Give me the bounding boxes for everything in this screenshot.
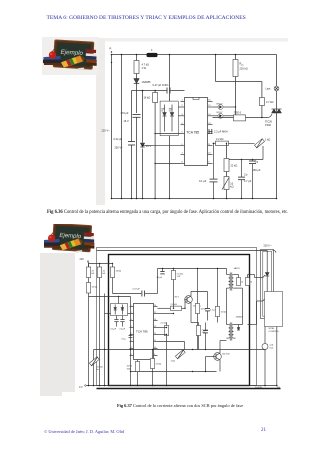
svg-text:30 V: 30 V	[175, 297, 180, 299]
caption figure 2	[40, 403, 320, 408]
wire Q2 nets	[205, 341, 227, 373]
apple	[48, 232, 55, 241]
transformer TR2	[227, 317, 244, 341]
svg-text:4.7 µF: 4.7 µF	[244, 179, 252, 183]
svg-text:1 kΩ: 1 kΩ	[171, 361, 176, 363]
wire input header	[89, 263, 114, 264]
svg-text:BY147: BY147	[217, 103, 224, 105]
wire rail C	[130, 297, 132, 387]
svg-text:15 kΩ: 15 kΩ	[221, 312, 227, 314]
node R input terminal	[110, 47, 113, 64]
clipart blackboard 1	[42, 37, 99, 80]
svg-text:Cφ: Cφ	[255, 160, 259, 164]
svg-text:12: 12	[154, 333, 156, 335]
resistor 4.7k load	[259, 82, 273, 119]
resistor 22k	[224, 143, 237, 172]
svg-text:8: 8	[131, 354, 132, 356]
diode BY147 b	[213, 112, 236, 118]
op-amp U2 TCA785	[130, 304, 158, 360]
wire phase ramp line	[213, 142, 255, 144]
wire bottom return	[86, 385, 276, 387]
capacitor Cb	[120, 316, 126, 331]
svg-text:16 kΩ: 16 kΩ	[116, 271, 122, 273]
footer	[44, 429, 124, 434]
label bottom designator	[255, 386, 281, 389]
capacitor 0.47uF	[153, 83, 171, 94]
svg-text:9: 9	[154, 354, 155, 356]
box ramp diodes	[160, 101, 178, 136]
wire bottom return bus	[112, 198, 277, 200]
wire rail to pin6	[142, 145, 181, 146]
box module label	[265, 292, 283, 334]
svg-text:16: 16	[154, 305, 156, 307]
svg-text:470 µF: 470 µF	[121, 111, 129, 115]
svg-text:150 µF: 150 µF	[253, 168, 261, 172]
lamp Last	[266, 86, 279, 91]
frame inner thick	[109, 255, 250, 386]
wire box to IC pins	[178, 107, 180, 116]
wire Q1 collector net	[158, 292, 208, 323]
svg-text:R: R	[110, 47, 112, 51]
thyristor SCR2	[263, 296, 269, 319]
wire box feed top	[169, 54, 171, 101]
svg-text:kΩ: kΩ	[103, 273, 106, 275]
wire Q1 base rail	[184, 300, 185, 310]
diode BAY61 a	[161, 105, 166, 132]
svg-text:1: 1	[131, 305, 132, 307]
svg-text:BD 135: BD 135	[223, 354, 231, 356]
wire rail A	[93, 350, 95, 387]
capacitor Cc	[203, 323, 208, 341]
crayon pencil	[61, 56, 85, 68]
svg-text:P100: P100	[265, 123, 272, 127]
resistor R lower	[86, 278, 97, 387]
wire top AC bus	[112, 54, 277, 56]
svg-text:15: 15	[154, 312, 156, 314]
wire mid feed bus	[158, 268, 227, 269]
potentiometer 4.7k lin	[89, 357, 103, 371]
svg-text:250 V~: 250 V~	[115, 146, 124, 150]
potentiometer 100k	[171, 350, 186, 363]
svg-text:0 V: 0 V	[79, 386, 83, 389]
svg-text:TSE 6: TSE 6	[234, 111, 242, 115]
svg-text:4.7 kΩ: 4.7 kΩ	[142, 63, 150, 67]
svg-text:0.47 µF ±10%: 0.47 µF ±10%	[153, 83, 170, 87]
wire left AC rail	[111, 54, 113, 200]
resistor Rsync 220k	[233, 54, 248, 116]
zener diode 1N4685	[134, 74, 151, 114]
wire ramp bus	[94, 349, 266, 350]
svg-text:220 V~: 220 V~	[102, 129, 111, 133]
resistor 10k under IC	[127, 360, 140, 387]
wire right rail	[276, 55, 278, 200]
clipart blackboard 2	[44, 224, 95, 260]
svg-text:22 kΩ: 22 kΩ	[156, 364, 162, 366]
wire rail x31	[131, 91, 133, 200]
svg-text:PG: PG	[277, 387, 280, 389]
wire box feed bottom	[169, 136, 171, 200]
wire gate1	[236, 275, 263, 278]
resistor 2.2k	[216, 137, 229, 146]
diode BY147 a	[213, 103, 237, 109]
svg-text:1 W: 1 W	[142, 66, 147, 70]
chalk	[76, 250, 82, 252]
resistor Re 1.4k	[196, 323, 208, 350]
op-amp U1 TCA785	[181, 98, 213, 166]
capacitor 0.22uF 250V	[114, 137, 136, 150]
resistor Rd 1k	[171, 269, 183, 297]
wire TR1 return	[227, 288, 243, 324]
books left stack	[43, 56, 62, 65]
capacitor 0.47uF	[113, 269, 158, 297]
blackboard	[52, 222, 92, 251]
resistor 5R b	[246, 275, 253, 286]
svg-text:220 kΩ: 220 kΩ	[240, 67, 248, 71]
capacitor C 4.7uF	[238, 159, 252, 200]
svg-text:TCA785: TCA785	[255, 386, 264, 389]
triac TIC26	[265, 109, 282, 127]
resistor R 47k	[86, 264, 94, 278]
svg-text:30 µF: 30 µF	[157, 277, 163, 279]
svg-text:1 kΩ: 1 kΩ	[265, 138, 270, 142]
svg-text:13: 13	[154, 326, 156, 328]
clipart backdrop	[42, 37, 99, 75]
transformer TR1	[227, 267, 241, 291]
diode Db	[121, 305, 124, 315]
svg-text:2.2 kΩ: 2.2 kΩ	[161, 323, 168, 325]
svg-text:220 V ~: 220 V ~	[264, 245, 273, 248]
svg-text:kΩ: kΩ	[92, 273, 95, 275]
transistor Q1	[185, 292, 202, 308]
resistor 2.2k horizontal	[167, 304, 186, 311]
resistor 22k	[150, 349, 161, 387]
capacitor 2.2uF MKH	[208, 129, 227, 134]
frame outer	[97, 248, 257, 386]
svg-text:3: 3	[131, 319, 132, 321]
capacitor C 470uF 16V	[121, 111, 141, 199]
box SCR module outer	[261, 250, 274, 319]
resistor 5R a	[237, 275, 244, 286]
resistor R1 4.7k 1W	[134, 54, 149, 74]
svg-text:10 kΩ: 10 kΩ	[127, 366, 133, 368]
wire lower bus	[130, 371, 217, 372]
svg-text:Cσ: Cσ	[244, 173, 248, 177]
motor M	[262, 344, 274, 387]
svg-text:1N4685: 1N4685	[142, 80, 152, 84]
resistor R 16k	[110, 264, 121, 294]
potentiometer 1k	[255, 138, 271, 160]
books right stack	[84, 232, 95, 248]
svg-text:0.1 µF: 0.1 µF	[199, 179, 207, 183]
svg-text:7: 7	[131, 347, 132, 349]
wire module drop	[264, 327, 266, 344]
resistor 15k vert	[215, 269, 226, 323]
capacitor Ca	[111, 316, 119, 331]
svg-text:und.: und.	[270, 345, 275, 347]
scan margin band	[40, 253, 62, 396]
diode D right	[237, 325, 240, 331]
svg-text:TCA 785: TCA 785	[186, 131, 199, 135]
capacitor C 150uF	[249, 160, 261, 200]
wire gate2	[236, 301, 263, 325]
svg-text:CONTROL: CONTROL	[269, 331, 280, 333]
svg-text:0.47 µF: 0.47 µF	[133, 289, 141, 291]
svg-text:1A125: 1A125	[234, 267, 241, 270]
chalk	[78, 68, 84, 70]
transistor Q2	[214, 349, 231, 365]
svg-text:BY147: BY147	[217, 112, 224, 114]
wire pin connects	[89, 296, 185, 350]
svg-text:sync: sync	[241, 65, 244, 67]
box sync diodes	[111, 304, 128, 316]
svg-text:kΩ: kΩ	[230, 185, 233, 189]
wire rail to pin8	[154, 163, 180, 164]
potentiometer 10k	[222, 172, 234, 200]
thyristor SCR1	[263, 253, 269, 293]
svg-text:2.2 µF MKH: 2.2 µF MKH	[214, 130, 228, 134]
svg-text:TIC26: TIC26	[265, 120, 273, 124]
caption figure 1	[47, 210, 299, 215]
transformer TSE6	[213, 111, 273, 121]
capacitor 30uF	[157, 268, 165, 279]
wire lamp feed branch	[215, 54, 262, 82]
svg-text:14: 14	[154, 319, 156, 321]
circuit figure 2	[62, 240, 292, 397]
svg-text:0.22 µF: 0.22 µF	[114, 137, 123, 141]
books right stack	[85, 49, 96, 66]
apple	[49, 49, 56, 58]
svg-text:4: 4	[131, 326, 132, 328]
wire right drop	[276, 327, 278, 387]
crayon pencil	[60, 238, 83, 250]
svg-text:6: 6	[131, 340, 132, 342]
node neutral terminal 0V	[79, 385, 86, 389]
svg-text:4.7 kΩ: 4.7 kΩ	[266, 100, 274, 104]
svg-text:16 V: 16 V	[124, 119, 130, 123]
resistor 16k	[144, 90, 158, 200]
wire rail to pin5	[154, 133, 180, 134]
diode Da	[114, 305, 117, 315]
capacitor 0.1uF right	[205, 294, 217, 321]
capacitor 0.1uF	[199, 143, 218, 200]
capacitor pin cap	[122, 334, 133, 341]
wire Vcc node	[132, 90, 167, 92]
svg-text:16 kΩ: 16 kΩ	[144, 96, 151, 100]
svg-text:10 kΩ: 10 kΩ	[92, 287, 98, 289]
svg-text:0.1µF: 0.1µF	[111, 329, 117, 331]
title	[47, 15, 307, 21]
wire rail x46	[142, 90, 144, 200]
resistor R 10k	[97, 264, 105, 387]
svg-text:Last: Last	[266, 87, 271, 91]
wire bottom thick bus	[97, 388, 281, 390]
fuse F	[147, 49, 158, 57]
wire cap bus	[226, 159, 263, 160]
diode BAY61 b	[169, 105, 174, 132]
node phase terminal 220	[80, 258, 89, 267]
svg-text:0.1µF: 0.1µF	[120, 329, 126, 331]
wire top inner bus	[97, 251, 268, 253]
svg-text:10: 10	[154, 347, 156, 349]
zener diode 16V	[140, 143, 151, 148]
resistor 10k vert	[195, 269, 206, 350]
svg-text:2.2 kΩ: 2.2 kΩ	[216, 137, 224, 141]
blackboard	[53, 39, 95, 69]
wire pin row extras	[158, 313, 175, 335]
box SCR module inner	[263, 251, 272, 316]
svg-text:SITEL: SITEL	[269, 328, 276, 330]
svg-text:22 kΩ: 22 kΩ	[231, 164, 238, 168]
svg-text:TCA 785: TCA 785	[136, 330, 148, 334]
resistor Rf 2.2k	[161, 323, 169, 387]
label 220V right	[264, 245, 277, 253]
wire rail B	[104, 294, 106, 387]
svg-text:2: 2	[131, 312, 132, 314]
svg-text:11: 11	[154, 340, 156, 342]
wire rail 2	[121, 54, 123, 200]
books left stack	[42, 238, 60, 247]
svg-text:mot.: mot.	[270, 347, 275, 350]
circuit figure 1	[96, 38, 288, 210]
